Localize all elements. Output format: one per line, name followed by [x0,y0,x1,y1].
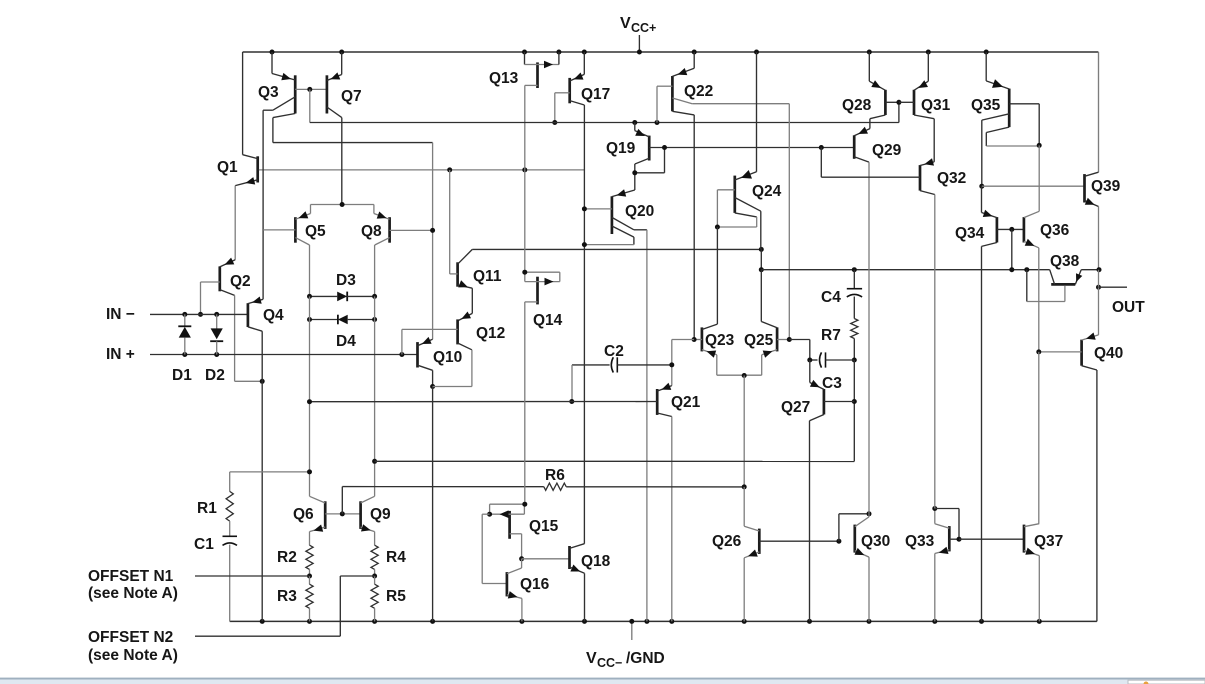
junction dot top rail x=694.2 [692,50,697,55]
label R5 [386,588,406,605]
wire Q10 collector down [432,387,434,622]
transistor Q33 [935,509,959,622]
svg-text:Q24: Q24 [752,183,782,200]
junction dot bottom rail x=646.9 [644,619,649,624]
resistor R3 [306,576,313,621]
svg-text:Q36: Q36 [1040,222,1070,239]
junction dot bottom rail x=809.5 [807,619,812,624]
label Q36 [1040,222,1070,239]
transistor Q34 [982,186,1024,621]
label R1 [197,500,217,517]
wire OFFSET N1 [195,575,310,577]
svg-text:Q10: Q10 [433,349,462,366]
resistor R5 [371,576,378,621]
transistor Q30 [855,514,870,622]
wire Q5/Q8 mirror top [311,204,374,206]
label C2 [604,343,624,360]
label Q12 [476,325,505,342]
label Q26 [712,533,742,550]
junction dot bottom rail x=981.5 [979,619,984,624]
wire Q25 base to C3 [789,340,810,361]
wire Q19/Q29 base line [649,147,854,149]
node comp line dot A [1009,267,1014,272]
node C2 to Q21 base dot [569,399,574,404]
wire Q1 base [259,169,585,171]
label Q6 [293,506,314,523]
label OUT [1112,299,1145,316]
label Q27 [781,399,810,416]
svg-text:D4: D4 [336,333,356,350]
node Q20 base dot [582,206,587,211]
node Q19 collector dot [632,170,637,175]
svg-text:CC+: CC+ [631,21,656,35]
svg-text:Q15: Q15 [529,518,559,535]
svg-text:D2: D2 [205,367,225,384]
svg-text:Q38: Q38 [1050,253,1080,270]
label OFFSET N1 note [88,585,178,602]
label Q5 [305,223,326,240]
svg-text:R5: R5 [386,588,406,605]
node Q32 collector dot [932,506,937,511]
svg-text:Q18: Q18 [581,553,611,570]
svg-text:C2: C2 [604,343,624,360]
transistor Q4 [248,297,263,622]
svg-text:OFFSET N2: OFFSET N2 [88,629,173,646]
node Q38 emitter dot [1097,267,1102,272]
label R4 [386,549,406,566]
label Q9 [370,506,391,523]
svg-text:OUT: OUT [1112,299,1145,316]
svg-text:Q39: Q39 [1091,178,1121,195]
svg-text:Q40: Q40 [1094,345,1123,362]
label Q2 [230,273,251,290]
label D2 [205,367,225,384]
transistor Q6 [310,496,326,545]
svg-text:/GND: /GND [626,650,665,667]
svg-text:R4: R4 [386,549,406,566]
transistor Q12 [402,319,472,386]
node Q2/Q4 collector dot [260,379,265,384]
junction dot top rail x=341.7 [339,50,344,55]
transistor Q23 [694,227,717,375]
wire Q33/Q37 base line [959,538,1024,540]
transistor Q17 [555,52,585,544]
node Q1 base / Q11 base dot [447,167,452,172]
junction dot top rail x=986.2 [984,50,989,55]
label Q18 [581,553,611,570]
wire R6 line right segment [566,486,744,488]
junction dot bottom rail x=584.5 [582,619,587,624]
svg-text:Q1: Q1 [217,159,238,176]
svg-text:Q35: Q35 [971,97,1001,114]
capacitor C3 [810,352,855,367]
node Q27 base dot [852,399,857,404]
node Q40 base dot [1036,349,1041,354]
svg-text:Q5: Q5 [305,223,326,240]
junction dot top rail x=928.3 [926,50,931,55]
svg-text:R6: R6 [545,467,565,484]
svg-text:Q31: Q31 [921,97,951,114]
label Q29 [872,142,902,159]
transistor Q19 [635,123,665,191]
wire OFFSET N2 [195,635,340,637]
top rail VCC+ [243,51,1099,53]
node Q39 base dot [979,184,984,189]
resistor R4 [371,545,378,576]
wire IN- line [150,313,248,315]
wire bias line corner up to Q28/Q31 bases [898,102,900,122]
node Q20 collector2 dot [582,242,587,247]
wire bias line y=122 [310,122,899,124]
transistor Q16 [507,568,522,621]
node C4 top dot [852,267,857,272]
svg-text:Q37: Q37 [1034,533,1063,550]
resistor R6 [544,483,566,490]
node C3 right dot [852,358,857,363]
svg-text:Q28: Q28 [842,97,872,114]
svg-text:Q4: Q4 [263,307,284,324]
transistor Q35 [982,52,1039,186]
node Q15/Q16/Q18 dot [519,556,524,561]
node D2 top dot [214,312,219,317]
capacitor C2 [611,357,617,372]
transistor Q18 [570,544,585,622]
label Q14 [533,312,563,329]
node Q28/Q31 base dot [896,100,901,105]
wire Q3/Q7 base tie [295,88,327,90]
VCC+ label [620,15,656,35]
wire Q36 emitter column down [1038,352,1040,524]
label Q32 [937,170,966,187]
svg-text:CC−: CC− [597,656,622,670]
label Q37 [1034,533,1063,550]
wire base tie down to comp line [1011,229,1013,269]
label Q11 [473,268,502,285]
transistor Q20 [584,189,647,621]
wire base tie up to R6 line [341,487,343,514]
junction dot top rail x=869.3 [867,50,872,55]
node Q21 base line left dot [307,399,312,404]
label D1 [172,367,192,384]
transistor Q26 [744,487,839,622]
label C4 [821,289,841,306]
VCC-/GND label [586,650,665,670]
svg-text:Q20: Q20 [625,203,654,220]
svg-text:Q32: Q32 [937,170,966,187]
svg-text:Q8: Q8 [361,223,382,240]
node Q15 left dot [487,512,492,517]
svg-text:IN +: IN + [106,346,135,363]
wire D3-D4 right column [374,296,376,319]
svg-text:Q13: Q13 [489,70,519,87]
svg-text:Q27: Q27 [781,399,810,416]
junction dot bottom rail x=309.5 [307,619,312,624]
transistor Q2 [201,258,263,382]
junction dot bottom rail x=869.0 [867,619,872,624]
page popup box [1128,680,1205,684]
label C1 [194,536,214,553]
transistor Q22 [657,52,789,340]
wire common emitter down to R6 line [743,376,745,487]
label C3 [822,375,842,392]
label OFFSET N2 note [88,647,178,664]
node Q24 base dot [715,225,720,230]
transistor Q24 [717,52,760,249]
svg-text:(see Note A): (see Note A) [88,647,178,664]
svg-text:Q6: Q6 [293,506,314,523]
svg-text:D1: D1 [172,367,192,384]
wire comp line y=270 [761,269,1049,271]
svg-text:D3: D3 [336,272,356,289]
wire R7 bottom [853,339,855,361]
node Q10/Q12 collector dot [430,384,435,389]
label Q3 [258,84,279,101]
svg-text:C1: C1 [194,536,214,553]
junction dot bottom rail x=432.6 [430,619,435,624]
label OFFSET N1 [88,568,174,585]
label Q1 [217,159,238,176]
transistor Q21 [657,365,672,622]
svg-text:(see Note A): (see Note A) [88,585,178,602]
node D2 bottom dot [214,352,219,357]
junction dot bottom rail x=744.2 [742,619,747,624]
svg-text:Q7: Q7 [341,88,362,105]
node Q10/Q12 base dot [399,352,404,357]
node Q15 top dot [522,502,527,507]
svg-text:Q21: Q21 [671,394,701,411]
junction dot top rail x=639.4 [637,50,642,55]
svg-text:Q12: Q12 [476,325,505,342]
svg-text:Q19: Q19 [606,140,636,157]
svg-text:V: V [620,15,631,32]
label R3 [277,588,297,605]
bottom rail VCC-/GND [230,620,1097,622]
node C2/Q21 emitter dot [669,362,674,367]
node Q2 base dot [198,312,203,317]
svg-text:Q17: Q17 [581,86,610,103]
VCC+ stem [638,35,640,52]
label Q4 [263,307,284,324]
label R2 [277,549,297,566]
svg-text:Q16: Q16 [520,576,550,593]
svg-text:R7: R7 [821,327,841,344]
label Q35 [971,97,1001,114]
node R1 line dot [307,469,312,474]
resistor R7 [851,319,858,339]
junction dot bottom rail x=374.6 [372,619,377,624]
wire Q39 base line [982,185,1085,187]
resistor R1 [226,472,233,536]
node Q1 base / Q13 dot [522,167,527,172]
transistor Q25 [761,270,789,376]
node OUT dot [1096,285,1101,290]
junction dot bottom rail x=521.9 [519,619,524,624]
node comp line left dot [759,267,764,272]
node Q17 base dot [552,120,557,125]
label Q21 [671,394,701,411]
label OFFSET N2 [88,629,173,646]
node Q7 collector dot [340,202,345,207]
top rail left drop to Q1 [242,52,244,155]
node Q3/Q7 base dot [307,87,312,92]
label Q31 [921,97,951,114]
junction dot bottom rail x=631.8 [629,619,634,624]
label Q7 [341,88,362,105]
label Q15 [529,518,559,535]
transistor Q36 [1024,211,1039,352]
wire C2 corner down [571,365,573,402]
svg-text:Q9: Q9 [370,506,391,523]
label Q23 [705,332,735,349]
wire Q35 base column down [1038,145,1040,211]
wire Q6/Q9 base tie [325,513,360,515]
label Q22 [684,83,713,100]
svg-text:OFFSET N1: OFFSET N1 [88,568,174,585]
node Q24 collector1 dot [759,247,764,252]
node D3 left dot [307,294,312,299]
junction dot top rail x=272.0 [270,50,275,55]
diode D2 [210,314,223,354]
wire D4 left down [309,320,311,497]
svg-text:Q11: Q11 [473,268,502,285]
transistor Q15 [490,504,525,559]
svg-text:R2: R2 [277,549,297,566]
node R4/R5 dot [372,574,377,579]
wire Q15 to Q16 base [482,514,507,583]
node R2/R3 dot [307,574,312,579]
svg-text:Q29: Q29 [872,142,902,159]
svg-text:Q14: Q14 [533,312,563,329]
label Q24 [752,183,782,200]
transistor Q9 [361,461,375,545]
label D4 [336,333,356,350]
label Q19 [606,140,636,157]
node Q6/Q9 base dot [340,511,345,516]
wire Q32 base line [821,148,920,178]
svg-text:C4: C4 [821,289,841,306]
node Q25 base dot [787,337,792,342]
label IN- [106,306,135,323]
node Q8 base dot [430,228,435,233]
VCC- stem [631,621,633,640]
label Q33 [905,533,935,550]
transistor Q27 [810,360,855,621]
label Q8 [361,223,382,240]
node Q23 base dot [692,337,697,342]
transistor Q10 [418,337,433,387]
diode D1 [178,314,191,354]
label R7 [821,327,841,344]
node C3 left dot [807,358,812,363]
svg-text:Q2: Q2 [230,273,251,290]
junction dot bottom rail x=1039.3 [1037,619,1042,624]
transistor Q8 [374,205,433,297]
label Q13 [489,70,519,87]
wire Q16 collector feed [521,559,523,568]
transistor Q7 [327,52,342,205]
transistor Q5 [263,205,310,297]
transistor Q31 [899,52,934,162]
wire C2 left [572,364,610,366]
label Q28 [842,97,872,114]
node D4 right dot [372,317,377,322]
wire Q3 base to bias line [309,89,311,122]
page band [0,680,1205,684]
junction dot top rail x=756.5 [754,50,759,55]
svg-text:Q23: Q23 [705,332,735,349]
transistor Q40 [1039,333,1099,622]
transistor Q14 [525,170,560,504]
transistor Q32 [920,158,935,508]
diode D3 [310,292,375,302]
svg-text:IN −: IN − [106,306,135,323]
label Q30 [861,533,890,550]
wire Q30 base loop [839,514,869,541]
node D3 right dot [372,294,377,299]
label IN+ [106,346,135,363]
wire R1 top line [230,471,310,473]
svg-text:R3: R3 [277,588,297,605]
page band line [0,678,1205,680]
label Q38 [1050,253,1080,270]
junction dot bottom rail x=671.8 [669,619,674,624]
wire Q39/Q38/Q40 column [1098,270,1100,335]
resistor R2 [306,545,313,576]
node Q35 base dot [1037,143,1042,148]
node Q14 dot [522,270,527,275]
node R6 line right dot [742,484,747,489]
wire mid line y=461 [375,460,855,462]
node Q30 collector dot [867,511,872,516]
node Q38 base takeoff dot [1024,267,1029,272]
wire C2 right [617,364,672,366]
label Q10 [433,349,462,366]
node D1 top dot [182,312,187,317]
svg-text:Q3: Q3 [258,84,279,101]
wire R6 line left segment [342,486,544,488]
label D3 [336,272,356,289]
top rail right drop to Q39 [1098,52,1100,172]
wire IN+ line [150,354,418,356]
node D4 left dot [307,317,312,322]
wire Q23/Q25 emitter bracket [717,374,762,376]
svg-text:Q34: Q34 [955,225,985,242]
label Q20 [625,203,654,220]
wire Q33 diode loop [935,509,959,540]
label Q16 [520,576,550,593]
wire Q21 base line y=401 [310,401,658,403]
transistor Q38 [1027,270,1099,302]
junction dot top rail x=524.5 [522,50,527,55]
transistor Q37 [1024,524,1039,622]
junction dot bottom rail x=262.2 [260,619,265,624]
label R6 [545,467,565,484]
junction dot top rail x=558.9 [556,50,561,55]
wire R7/C3 column down [853,360,855,461]
node Q33 base dot [957,537,962,542]
wire Q11 collector line y=249 [472,248,761,250]
capacitor C1 [223,536,238,545]
node Q34/Q36 base dot [1009,227,1014,232]
node Q23/Q25 emitter dot [742,373,747,378]
label Q39 [1091,178,1121,195]
label Q40 [1094,345,1123,362]
junction dot top rail x=584.3 [582,50,587,55]
node Q32 base dot [819,145,824,150]
label Q25 [744,332,774,349]
svg-text:Q25: Q25 [744,332,774,349]
wire Q24 col1 to Q25 emitter [760,249,762,269]
